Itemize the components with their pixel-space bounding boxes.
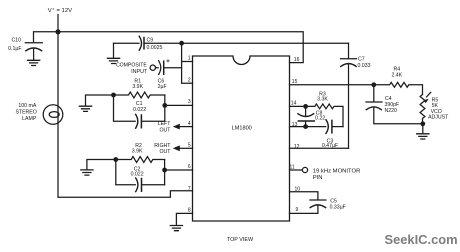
wire pin10 line: [290, 192, 318, 200]
svg-text:0.1µF: 0.1µF: [8, 46, 21, 52]
node A dot pin15: [371, 82, 376, 87]
svg-text:1: 1: [188, 56, 191, 62]
svg-text:ADJUST: ADJUST: [428, 115, 449, 121]
svg-text:0.0025: 0.0025: [147, 45, 163, 51]
wire pin13 line: [290, 126, 326, 128]
svg-text:RIGHT: RIGHT: [154, 143, 171, 149]
node 19kHz monitor terminal: [302, 167, 307, 172]
wire R2 left to ground: [87, 160, 116, 170]
svg-text:PIN: PIN: [313, 175, 323, 181]
svg-text:0.33µF: 0.33µF: [330, 205, 346, 211]
svg-text:8: 8: [188, 208, 191, 214]
svg-text:C7: C7: [358, 56, 365, 62]
resistor R2: [116, 157, 165, 163]
ground C10: [28, 60, 40, 65]
svg-text:C9: C9: [147, 38, 154, 44]
svg-text:0.033: 0.033: [358, 63, 371, 69]
svg-text:16: 16: [294, 57, 300, 63]
svg-text:SeekIC.com: SeekIC.com: [385, 232, 458, 247]
svg-text:C5: C5: [330, 199, 337, 205]
wire lamp branch to pin 7: [58, 32, 193, 198]
capacitor C8: [305, 106, 307, 115]
svg-text:2: 2: [188, 77, 191, 83]
wire pin1-pin2 ladder: [182, 43, 193, 83]
wire pin14 line: [290, 105, 306, 107]
wire pin5 right out arrow: [179, 147, 193, 149]
svg-text:14: 14: [291, 101, 297, 107]
resistor R1: [114, 92, 165, 98]
capacitor C6: [156, 61, 182, 75]
ground pin8: [170, 226, 182, 231]
lamp 100mA stereo lamp: [43, 105, 63, 125]
capacitor C2: [116, 160, 136, 185]
ground R2: [81, 170, 93, 175]
op-amp U1 LM1800 IC body: [193, 56, 290, 221]
node pin14 dot: [303, 104, 308, 109]
svg-text:0.22: 0.22: [315, 116, 325, 122]
svg-text:OUT: OUT: [159, 127, 171, 133]
svg-text:2µF: 2µF: [158, 84, 167, 90]
wire pin8 to ground: [176, 213, 192, 225]
svg-text:3: 3: [188, 99, 191, 105]
svg-text:100 mA: 100 mA: [18, 103, 36, 109]
wire R2/C2 right node to pin 6: [165, 160, 193, 185]
node pin3 dot: [162, 103, 167, 108]
capacitor C3: [326, 120, 328, 134]
svg-text:6: 6: [188, 164, 191, 170]
node composite input terminal: [150, 65, 155, 70]
wiper arrow R5: [427, 92, 431, 97]
resistor R4: [374, 82, 423, 94]
wire R1/C1 right node to pin 3: [165, 95, 193, 121]
node R1 left dot: [111, 93, 116, 98]
node pin6 dot: [162, 168, 167, 173]
svg-text:2.4K: 2.4K: [391, 72, 402, 78]
resistor R5 potentiometer: [420, 95, 425, 124]
capacitor C4: [373, 85, 375, 102]
svg-text:0.022: 0.022: [133, 107, 146, 113]
svg-text:9: 9: [296, 207, 299, 213]
node V+ junction dot: [55, 29, 60, 34]
ground C9: [107, 58, 119, 63]
svg-text:COMPOSITE: COMPOSITE: [116, 63, 147, 69]
svg-text:5: 5: [188, 143, 191, 149]
svg-text:TOP VIEW: TOP VIEW: [227, 237, 254, 243]
svg-text:0.022: 0.022: [131, 172, 144, 178]
wire pin4 left out arrow: [179, 126, 193, 128]
svg-text:INPUT: INPUT: [131, 69, 148, 75]
svg-text:10: 10: [295, 186, 301, 192]
wire R1 left to ground: [86, 95, 114, 106]
node R5 bottom dot: [420, 121, 425, 126]
wire pin12 line: [290, 147, 349, 149]
svg-text:0.47µF: 0.47µF: [322, 143, 338, 149]
node C9 junction dot: [179, 41, 184, 46]
svg-text:V⁺ = 12V: V⁺ = 12V: [48, 7, 72, 14]
wire R5 ground stem: [422, 124, 424, 134]
svg-text:LEFT: LEFT: [158, 121, 172, 127]
svg-text:3.9K: 3.9K: [132, 148, 143, 154]
wire V+ stem: [57, 15, 59, 32]
svg-text:3.3K: 3.3K: [317, 96, 328, 102]
svg-text:N220: N220: [385, 108, 398, 114]
svg-text:11: 11: [290, 165, 295, 171]
node R2 left dot: [113, 157, 118, 162]
svg-text:LM1800: LM1800: [232, 126, 252, 132]
ground R1: [79, 106, 91, 111]
node pin13 dot: [303, 124, 308, 129]
svg-text:15: 15: [292, 79, 298, 85]
svg-text:7: 7: [188, 186, 191, 192]
capacitor C7: [348, 43, 350, 58]
capacitor C10: [25, 42, 42, 44]
capacitor C5: [310, 199, 326, 201]
svg-text:C10: C10: [11, 38, 21, 44]
wire pin11 stub: [290, 169, 303, 171]
wire C9 ground stem: [113, 43, 115, 58]
svg-text:STEREO: STEREO: [15, 110, 36, 116]
svg-text:4: 4: [188, 121, 191, 127]
svg-text:12: 12: [294, 144, 300, 150]
svg-text:OUT: OUT: [159, 149, 171, 155]
capacitor C1: [114, 95, 136, 121]
resistor R3: [306, 104, 343, 127]
svg-text:13: 13: [292, 122, 298, 128]
capacitor C9: [114, 42, 140, 44]
svg-text:19 kHz MONITOR: 19 kHz MONITOR: [313, 168, 361, 174]
svg-text:3.9K: 3.9K: [132, 84, 143, 90]
wire pin15 line: [290, 84, 374, 86]
ground R5: [417, 134, 429, 139]
svg-text:LAMP: LAMP: [22, 116, 37, 122]
wire V+ rail to pin 16: [34, 32, 304, 63]
